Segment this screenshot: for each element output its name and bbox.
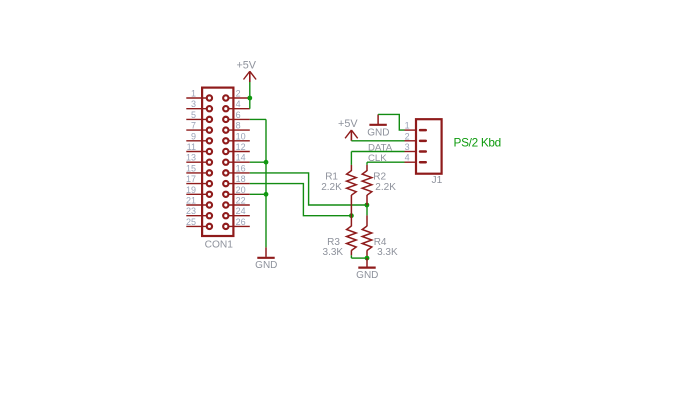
- svg-text:4: 4: [236, 99, 241, 109]
- svg-text:GND: GND: [255, 260, 277, 271]
- svg-text:2: 2: [405, 131, 410, 141]
- svg-text:14: 14: [236, 153, 246, 163]
- svg-text:GND: GND: [356, 270, 378, 281]
- svg-text:16: 16: [236, 163, 246, 173]
- svg-text:25: 25: [186, 217, 196, 227]
- svg-text:11: 11: [187, 142, 196, 152]
- svg-text:5: 5: [191, 110, 196, 120]
- svg-text:PS/2 Kbd: PS/2 Kbd: [454, 135, 501, 149]
- svg-text:24: 24: [236, 206, 246, 216]
- svg-text:GND: GND: [367, 127, 389, 138]
- svg-text:+5V: +5V: [338, 118, 358, 130]
- svg-text:7: 7: [191, 121, 196, 131]
- svg-text:+5V: +5V: [236, 59, 256, 71]
- svg-text:15: 15: [186, 163, 196, 173]
- svg-text:26: 26: [236, 217, 246, 227]
- svg-text:6: 6: [236, 110, 241, 120]
- svg-text:20: 20: [236, 185, 246, 195]
- svg-text:22: 22: [236, 196, 246, 206]
- svg-text:4: 4: [405, 153, 410, 163]
- svg-text:3.3K: 3.3K: [377, 247, 398, 258]
- svg-text:3: 3: [191, 99, 196, 109]
- svg-text:DATA: DATA: [368, 142, 393, 153]
- svg-text:2.2K: 2.2K: [375, 182, 396, 193]
- svg-text:8: 8: [236, 121, 241, 131]
- svg-text:9: 9: [191, 131, 196, 141]
- svg-text:10: 10: [236, 131, 246, 141]
- svg-text:2.2K: 2.2K: [321, 182, 342, 193]
- svg-text:3: 3: [405, 142, 410, 152]
- svg-text:21: 21: [186, 196, 196, 206]
- svg-text:2: 2: [236, 89, 241, 99]
- svg-text:23: 23: [186, 206, 196, 216]
- svg-text:17: 17: [186, 174, 196, 184]
- svg-text:13: 13: [186, 153, 196, 163]
- svg-text:J1: J1: [432, 175, 443, 186]
- svg-text:3.3K: 3.3K: [323, 247, 344, 258]
- svg-text:1: 1: [405, 121, 410, 131]
- svg-text:CON1: CON1: [205, 239, 234, 250]
- svg-text:CLK: CLK: [368, 153, 387, 164]
- svg-text:1: 1: [191, 89, 196, 99]
- svg-text:12: 12: [236, 142, 246, 152]
- svg-text:19: 19: [186, 185, 196, 195]
- svg-text:18: 18: [236, 174, 246, 184]
